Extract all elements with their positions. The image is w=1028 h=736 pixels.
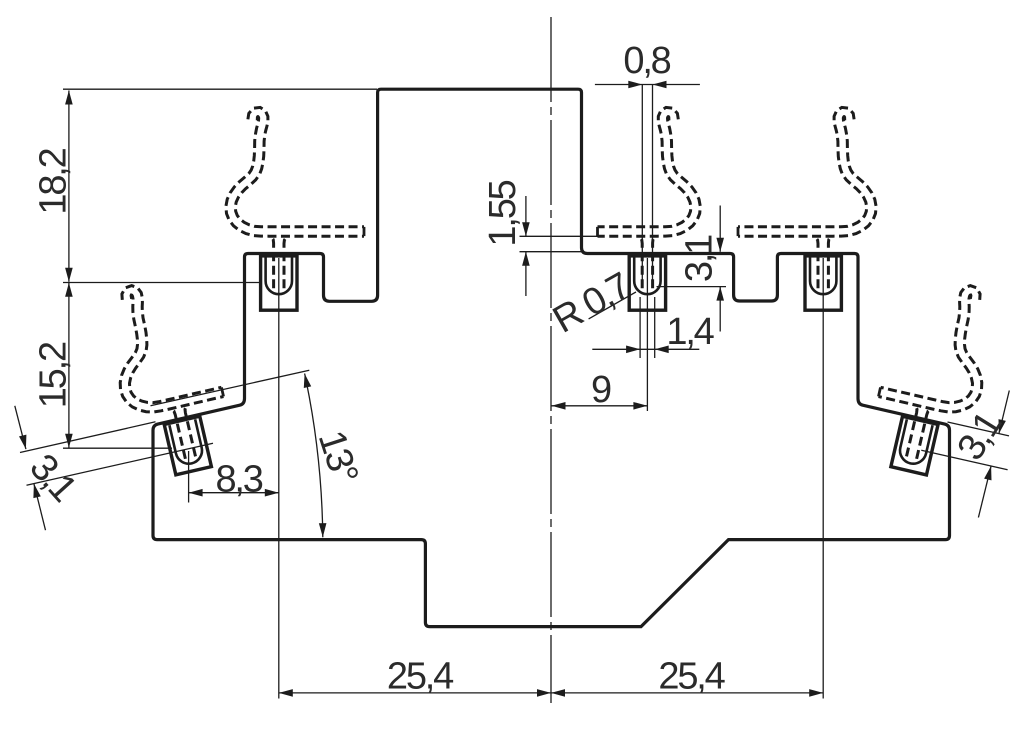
svg-text:25,4: 25,4 <box>658 656 725 698</box>
svg-text:25,4: 25,4 <box>387 656 454 698</box>
svg-text:9: 9 <box>591 369 611 411</box>
svg-text:1,55: 1,55 <box>482 180 524 246</box>
svg-text:15,2: 15,2 <box>33 342 75 408</box>
svg-text:8,3: 8,3 <box>215 459 262 501</box>
svg-text:18,2: 18,2 <box>33 148 75 214</box>
svg-text:0,8: 0,8 <box>623 40 670 82</box>
svg-text:3,1: 3,1 <box>679 235 721 282</box>
svg-text:1,4: 1,4 <box>666 311 714 353</box>
